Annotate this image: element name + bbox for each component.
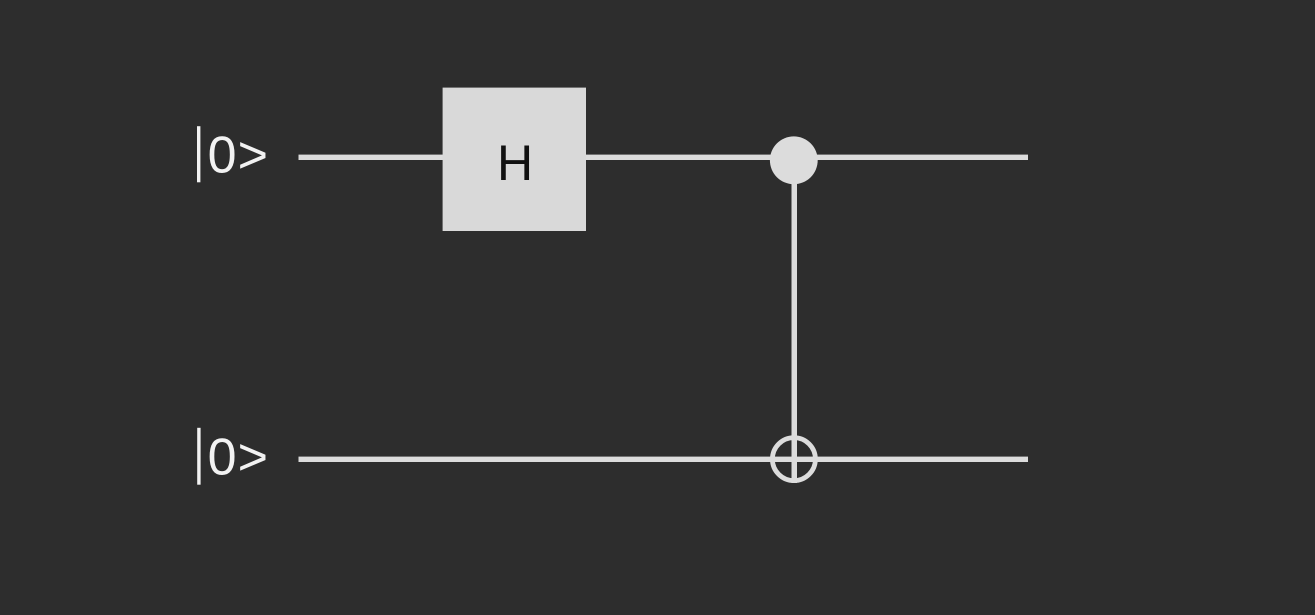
- H gate box: [443, 88, 586, 231]
- wire q1: [299, 457, 1029, 462]
- CNOT target (circled plus): [772, 438, 815, 481]
- svg-text:>: >: [238, 127, 268, 185]
- wire q0: [299, 155, 1029, 160]
- svg-text:>: >: [238, 429, 268, 487]
- qubit q1 label ket bar: [197, 428, 200, 485]
- svg-text:H: H: [497, 135, 533, 191]
- svg-text:0: 0: [208, 127, 237, 185]
- control line (CNOT vertical wire): [792, 160, 798, 483]
- qubit q0 label ket bar: [197, 126, 200, 182]
- control dot (CNOT control): [770, 136, 818, 184]
- svg-text:0: 0: [208, 429, 237, 487]
